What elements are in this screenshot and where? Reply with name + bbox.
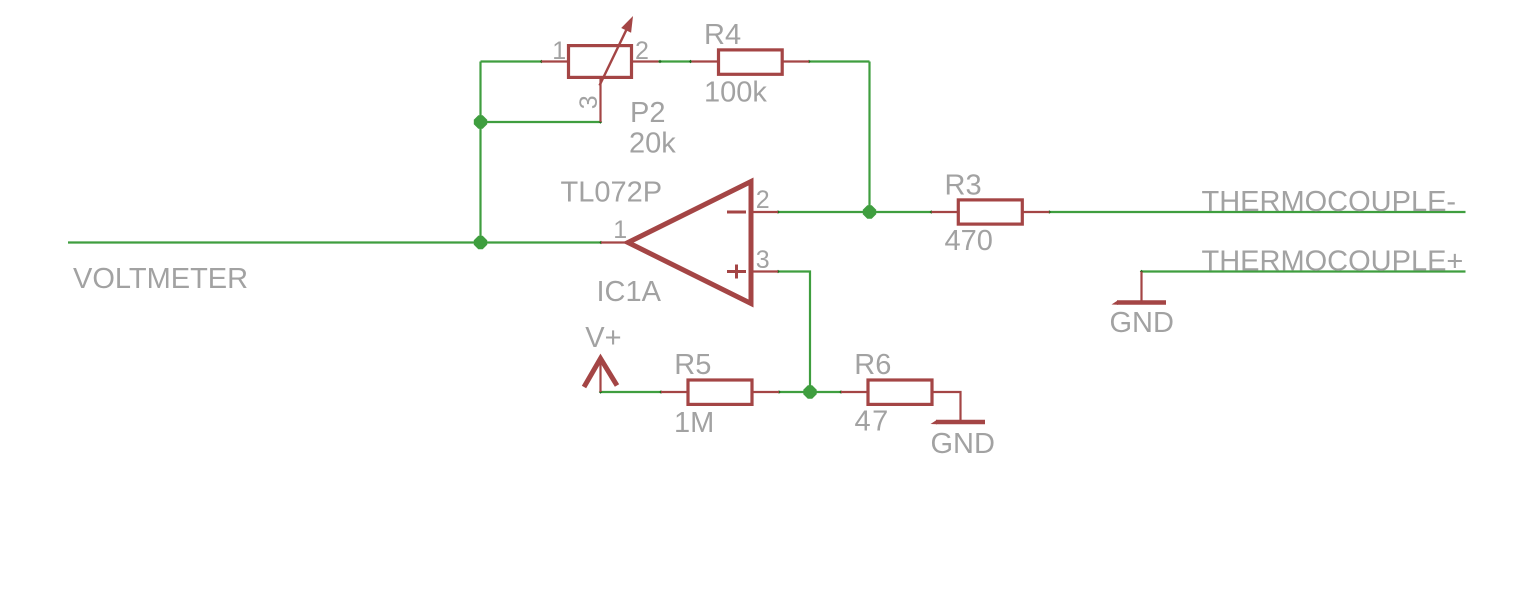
op-amp IC1A body <box>628 182 751 304</box>
potentiometer P2 pin 1 <box>542 60 569 62</box>
wire pot pin2 to R4 <box>659 60 692 62</box>
op-amp pin 1 (output) <box>601 241 628 243</box>
wire node to R3 <box>870 211 932 213</box>
svg-text:THERMOCOUPLE+: THERMOCOUPLE+ <box>1202 245 1464 277</box>
svg-text:20k: 20k <box>629 127 676 159</box>
wire pot pin3 net <box>481 121 601 123</box>
svg-text:2: 2 <box>635 37 649 65</box>
resistor R4 pin 2 <box>782 60 809 62</box>
svg-text:1: 1 <box>613 216 627 244</box>
ground GND (thermocouple+) bar <box>1117 300 1166 304</box>
svg-text:IC1A: IC1A <box>597 276 662 308</box>
resistor R6 body <box>868 380 932 404</box>
node junction at pin2/R3 <box>863 205 876 218</box>
svg-text:VOLTMETER: VOLTMETER <box>73 263 248 295</box>
op-amp pin 3 (non-inverting) <box>751 270 778 272</box>
wire top to pot pin1 <box>481 60 542 62</box>
resistor R5 pin 1 <box>661 391 688 393</box>
resistor R3 body <box>958 200 1022 224</box>
node junction at voltmeter wire <box>474 236 487 249</box>
potentiometer P2 pin 2 <box>632 60 659 62</box>
svg-text:R5: R5 <box>674 349 711 381</box>
wire R5 to node to R6 <box>779 391 841 393</box>
potentiometer P2 pin 3 <box>599 78 601 123</box>
svg-text:1: 1 <box>552 37 566 65</box>
potentiometer P2 wiper arrow <box>600 30 627 85</box>
svg-text:R3: R3 <box>945 170 982 202</box>
wire op-amp pin2 to node <box>778 211 870 213</box>
wire VOLTMETER net (main horizontal) <box>68 241 601 243</box>
node junction at feedback/pot3 <box>474 115 487 128</box>
svg-text:2: 2 <box>756 186 770 214</box>
resistor R5 body <box>688 380 752 404</box>
op-amp minus sign <box>727 211 746 214</box>
svg-text:3: 3 <box>575 95 603 109</box>
svg-text:P2: P2 <box>630 97 665 129</box>
svg-text:47: 47 <box>855 406 890 438</box>
svg-text:R6: R6 <box>854 349 891 381</box>
svg-text:100k: 100k <box>704 76 767 108</box>
svg-text:R4: R4 <box>704 19 741 51</box>
wire op-amp pin3 down to R5/R6 node <box>778 272 810 393</box>
svg-text:1M: 1M <box>674 407 714 439</box>
resistor R6 pin 1 <box>841 391 868 393</box>
wire R4 to right corner <box>809 60 870 62</box>
wire/pin connection dots <box>540 60 543 63</box>
wire V+ to R5 <box>601 391 662 393</box>
ground GND (R6) bar <box>936 420 985 424</box>
wire THERMOCOUPLE+ <box>1142 270 1466 272</box>
svg-text:3: 3 <box>756 246 770 274</box>
resistor R3 pin 2 <box>1022 211 1049 213</box>
svg-text:V+: V+ <box>585 322 621 354</box>
ground GND (thermocouple+) pin <box>1140 272 1142 303</box>
potentiometer P2 body <box>569 46 632 78</box>
wire R3 to THERMOCOUPLE- <box>1049 211 1465 213</box>
svg-text:GND: GND <box>1110 307 1174 339</box>
node junction at R5/R6 <box>803 385 816 398</box>
resistor R3 pin 1 <box>932 211 959 213</box>
V+ supply symbol <box>584 359 617 388</box>
resistor R4 pin 1 <box>692 60 719 62</box>
wire right vertical down to pin2 node <box>868 62 870 213</box>
svg-text:TL072P: TL072P <box>561 177 663 209</box>
resistor R6 pin 2 to ground <box>932 392 961 420</box>
wire left vertical feedback <box>479 62 481 243</box>
svg-text:GND: GND <box>931 428 995 460</box>
op-amp plus sign <box>727 265 746 279</box>
resistor R4 body <box>719 50 783 74</box>
svg-text:470: 470 <box>945 225 993 257</box>
resistor R5 pin 2 <box>752 391 779 393</box>
op-amp pin 2 (inverting) <box>751 211 778 213</box>
svg-text:THERMOCOUPLE-: THERMOCOUPLE- <box>1202 186 1457 218</box>
